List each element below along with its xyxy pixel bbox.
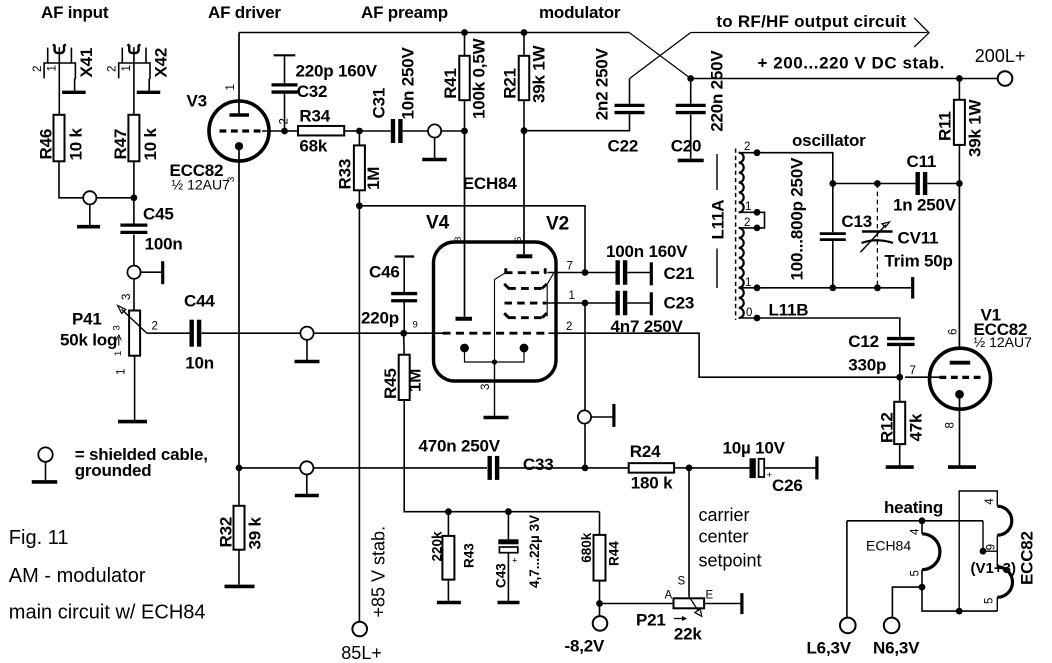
junction pin 9 node [400, 330, 407, 337]
svg-text:68k: 68k [299, 137, 328, 156]
svg-text:½ 12AU7: ½ 12AU7 [172, 177, 231, 193]
svg-text:100n: 100n [145, 235, 183, 254]
svg-text:9: 9 [413, 320, 418, 331]
wire C43 bottom [507, 553, 509, 601]
wire pin7 node to C21 [585, 272, 616, 274]
resistor R11 body [954, 100, 965, 145]
junction pin 1 node [582, 300, 589, 307]
trimmer CV11 top plate [862, 230, 893, 232]
wire C43 top [507, 512, 509, 540]
svg-text:C26: C26 [772, 476, 803, 495]
svg-text:2: 2 [32, 66, 44, 72]
wire L11B tap1 to ground [757, 287, 911, 289]
junction R11 bottom C11 [956, 180, 963, 187]
heating left drop to L terminal [846, 521, 848, 619]
svg-text:1: 1 [569, 290, 575, 302]
svg-text:100k 0,5W: 100k 0,5W [470, 37, 489, 119]
svg-text:10 k: 10 k [141, 127, 160, 160]
L11B tap 1 dot [754, 284, 761, 291]
inductor L11A winding [739, 153, 744, 213]
wire R44 node to P21 [600, 603, 674, 605]
connector X42 bracket [119, 63, 150, 91]
svg-text:4: 4 [984, 498, 996, 505]
junction C20 top [687, 75, 694, 82]
shielded-cable symbol at AF input [83, 191, 96, 204]
potentiometer P21 wiper [689, 597, 699, 612]
tube V3 envelope [209, 101, 269, 161]
wire heater loop top [959, 491, 997, 611]
wire P41 wiper to C44 [147, 332, 190, 334]
svg-text:R41: R41 [441, 68, 460, 99]
junction V1 grid R12 [896, 374, 903, 381]
svg-text:1: 1 [121, 65, 133, 71]
terminal L6,3V [840, 618, 856, 634]
wire +85V feed down to 85L+ terminal [358, 206, 360, 622]
junction C33 node [582, 465, 589, 472]
svg-text:AM - modulator: AM - modulator [9, 565, 146, 587]
potentiometer P21 body [674, 598, 705, 608]
tube V2 cathode [520, 344, 529, 353]
svg-text:½ 12AU7: ½ 12AU7 [974, 334, 1033, 350]
legend ground bar [32, 480, 58, 484]
tube V2 grid g4 row [505, 302, 547, 305]
resistor R34 body [298, 126, 344, 136]
svg-text:CV11: CV11 [898, 229, 939, 248]
capacitor C11 [916, 172, 920, 195]
wire C20 top [690, 79, 692, 104]
capacitor C23 [616, 291, 620, 316]
junction carrier node [686, 465, 693, 472]
connector X42 shield lead [145, 48, 147, 63]
capacitor C43 polarized plate [498, 539, 518, 544]
svg-text:R34: R34 [299, 107, 330, 126]
tube V4 plate lead from R41 [464, 131, 466, 317]
svg-text:85L+: 85L+ [341, 643, 382, 663]
svg-text:R45: R45 [381, 368, 400, 399]
junction pin 7 node [582, 269, 589, 276]
inductor L11B lower winding [739, 288, 744, 318]
svg-text:1: 1 [225, 84, 237, 90]
svg-text:C44: C44 [184, 292, 215, 311]
svg-text:ECH84: ECH84 [463, 174, 518, 193]
svg-text:C43: C43 [494, 563, 509, 588]
svg-text:R21: R21 [501, 68, 520, 99]
wire L11B tap0 to C12 [757, 318, 900, 337]
svg-text:9: 9 [986, 544, 998, 550]
capacitor C22 [615, 104, 645, 107]
svg-text:3: 3 [480, 384, 492, 390]
junction bias rail C43 [505, 508, 512, 515]
capacitor C45 [120, 223, 147, 226]
shield stub right [141, 271, 162, 273]
junction bias rail R43 [445, 508, 452, 515]
svg-text:3: 3 [121, 294, 133, 300]
svg-text:4n7 250V: 4n7 250V [611, 317, 684, 336]
svg-text:100n 160V: 100n 160V [606, 242, 688, 261]
svg-text:to RF/HF output circuit: to RF/HF output circuit [716, 12, 906, 31]
capacitor C43 open plate [499, 547, 517, 553]
terminal 85L+ [352, 622, 367, 637]
terminal 200L+ [998, 71, 1013, 86]
svg-text:1: 1 [745, 201, 751, 213]
crossover diagonal C22 to RF output [630, 33, 691, 79]
junction R47 C45 [131, 194, 138, 201]
ground bar right of C26 [815, 456, 818, 479]
resistor R43 body [442, 536, 454, 580]
svg-text:4,7...22µ 3V: 4,7...22µ 3V [527, 515, 542, 588]
svg-text:100...800p 250V: 100...800p 250V [788, 157, 807, 281]
ground bar below R43 [437, 601, 461, 605]
svg-text:1M: 1M [364, 167, 383, 190]
svg-text:1M: 1M [406, 369, 425, 392]
resistor R32 body [234, 506, 245, 550]
svg-text:C20: C20 [671, 136, 702, 155]
wire ECH84 pin 7 [548, 272, 586, 274]
wire L11A top tap to C13 [757, 153, 833, 233]
shield stub down [306, 340, 308, 360]
svg-text:carrier: carrier [699, 505, 750, 525]
capacitor C12 [887, 337, 915, 340]
wire R21 top [523, 33, 525, 56]
wire junction to -8,2V terminal [599, 604, 601, 617]
trimmer CV11 dashed link [876, 184, 878, 288]
wire carrier node down to P21 wiper [688, 468, 690, 597]
wire R12 bottom [899, 444, 901, 465]
junction R34 R33 C31 [356, 128, 363, 135]
ECC82 heater winding upper [997, 506, 1012, 535]
wire R21 bottom [523, 100, 525, 131]
wire C20 to ground [690, 115, 692, 159]
tube V1 envelope [930, 348, 991, 409]
svg-text:10 k: 10 k [67, 127, 86, 160]
capacitor C13 plates [820, 232, 846, 235]
ground bar below grid-wire shield [295, 360, 320, 364]
ground bar below V1 cathode [948, 465, 976, 469]
ground bar below AF input shield [77, 225, 100, 229]
heater center tap from top wire [983, 521, 997, 551]
tube cathode junction [492, 359, 497, 364]
svg-text:22k: 22k [674, 625, 703, 644]
ECC82 heater winding lower [997, 567, 1012, 597]
svg-text:V3: V3 [187, 92, 207, 111]
svg-text:C13: C13 [841, 212, 872, 231]
svg-text:+ 200...220 V DC stab.: + 200...220 V DC stab. [758, 54, 945, 73]
L11B tap 0 dot [754, 315, 761, 322]
potentiometer P41 wiper arrow [122, 309, 147, 333]
svg-text:P21: P21 [636, 611, 666, 630]
ground bar below C31 shield [422, 158, 447, 162]
svg-text:200L+: 200L+ [975, 46, 1026, 66]
wire R44 bottom [599, 581, 601, 604]
svg-text:4: 4 [910, 528, 922, 535]
tube V1 cathode lead pin 8 [959, 398, 961, 465]
shield stub right at pin1 line [591, 416, 613, 418]
junction rail R41 [461, 29, 468, 36]
tube ECH84 envelope [434, 242, 557, 381]
svg-text:50k log: 50k log [60, 331, 117, 350]
L11A tap 2 stub [739, 152, 757, 154]
tube V1 grid [940, 376, 983, 379]
wire shield to P41 [133, 279, 135, 311]
resistor R45 body [399, 355, 410, 400]
wire pin9 to R45 [403, 333, 406, 355]
wire R46 bottom to junction [59, 161, 83, 198]
tube V2 grid g3 row [504, 268, 507, 273]
inductor L11 core dashed line [735, 149, 737, 321]
ground bar below R12 [886, 465, 914, 469]
wire C26 to ground bar [765, 467, 816, 469]
wire ECH84 heater to bottom rail [922, 587, 997, 611]
svg-text:C32: C32 [297, 82, 328, 101]
L11 jumper tap1 to tap2 [757, 212, 765, 228]
svg-text:2n2 250V: 2n2 250V [593, 47, 612, 120]
L11B tap 2 dot [754, 225, 761, 232]
svg-text:1: 1 [745, 277, 751, 289]
wire node to C31 [359, 130, 390, 132]
junction R41 bottom V4 plate [461, 128, 468, 135]
ground bar below R32 [225, 585, 255, 589]
wire pin1 node to C23 [585, 302, 616, 304]
tube V3 grid lead [262, 130, 285, 132]
svg-text:C22: C22 [608, 136, 639, 155]
svg-text:E: E [706, 590, 714, 602]
svg-text:R32: R32 [217, 517, 236, 548]
wire shield to C33 [313, 467, 487, 469]
ground bar below C43 [498, 601, 520, 605]
svg-text:L11A: L11A [709, 200, 728, 240]
tube common grid g1 row [443, 332, 549, 335]
svg-text:180 k: 180 k [631, 474, 673, 493]
junction C13 top node [829, 180, 836, 187]
capacitor C31 [391, 119, 395, 143]
svg-text:R12: R12 [878, 412, 897, 443]
svg-text:A: A [665, 590, 673, 602]
svg-text:P41: P41 [72, 310, 102, 329]
wire C12 bottom to V1 grid node [899, 346, 901, 377]
wire top rail [239, 32, 629, 34]
svg-text:grounded: grounded [75, 461, 152, 480]
tube V3 grid [220, 129, 263, 132]
ground bar right of pin1 shield [612, 404, 615, 427]
svg-text:10µ 10V: 10µ 10V [723, 438, 786, 457]
heating top wire [847, 520, 983, 522]
ground bar below ECH84 cathode [484, 416, 509, 420]
capacitor C20 [676, 104, 706, 107]
svg-text:ECH84: ECH84 [866, 537, 911, 553]
svg-text:R46: R46 [36, 129, 55, 160]
wire C33 to pin1-line node [499, 467, 585, 469]
svg-text:6: 6 [513, 237, 524, 242]
svg-text:10n: 10n [185, 354, 214, 373]
svg-text:220k: 220k [430, 531, 445, 562]
ECH84 heater top lead [921, 521, 923, 534]
wire R12 top [899, 377, 901, 402]
wire R41 top [464, 33, 466, 56]
tube V2 plate [517, 254, 533, 258]
wire C11 to R11 line [927, 183, 959, 185]
svg-text:Fig. 11: Fig. 11 [9, 527, 69, 549]
svg-text:220n 250V: 220n 250V [708, 50, 727, 132]
svg-text:-8,2V: -8,2V [565, 637, 605, 656]
resistor R33 body [354, 145, 365, 190]
svg-text:C45: C45 [143, 205, 174, 224]
wire R43 bottom [447, 580, 449, 601]
junction CV11 bottom [874, 284, 881, 291]
svg-text:5: 5 [910, 570, 922, 576]
tube internal grid link right [547, 273, 554, 317]
svg-text:7: 7 [910, 365, 916, 377]
svg-text:C23: C23 [664, 294, 695, 313]
tube V3 cathode lead pin 3 [238, 150, 240, 468]
svg-text:+85 V stab.: +85 V stab. [369, 526, 389, 618]
junction R11 top [956, 75, 963, 82]
wire C22 top [629, 79, 631, 104]
svg-text:1: 1 [116, 369, 128, 375]
ECC82 heater mid link [996, 535, 998, 567]
wire C31 to shield circle [403, 130, 428, 132]
shielded-cable symbol on C33 wire [300, 461, 313, 474]
capacitor C32 plates [272, 83, 298, 86]
junction V3 grid node [281, 128, 288, 135]
svg-text:setpoint: setpoint [699, 550, 762, 570]
capacitor C46 top stub [403, 257, 405, 292]
svg-text:R47: R47 [111, 129, 130, 160]
tube V1 cathode [955, 390, 964, 399]
shielded-cable symbol on grid wire [300, 327, 313, 340]
tube V4 plate [456, 317, 473, 321]
svg-text:2: 2 [566, 321, 572, 333]
legend shielded-cable circle [38, 447, 52, 461]
junction CV11 top node [874, 180, 881, 187]
tube V1 plate lead pin 6 [958, 184, 960, 360]
ground bar below P41 [118, 420, 147, 424]
svg-text:ECC82: ECC82 [1018, 531, 1037, 585]
wire C21 to ground bar [627, 272, 650, 274]
L11B tap 0 stub [739, 317, 757, 319]
svg-text:220p 160V: 220p 160V [296, 62, 378, 81]
wire R11 bottom to V1 plate [958, 145, 960, 184]
wire +200V DC rail [691, 78, 998, 80]
wire R33 top [358, 131, 360, 145]
wire osc node to C11 [833, 183, 916, 185]
svg-text:heating: heating [884, 498, 943, 517]
wire C32 to grid junction [284, 92, 286, 131]
svg-text:S: S [678, 576, 686, 588]
svg-text:C11: C11 [907, 152, 937, 171]
wire R32 bottom [238, 550, 240, 585]
svg-text:2: 2 [744, 217, 750, 229]
wire pin 9 into tube [404, 332, 443, 334]
svg-text:10n 250V: 10n 250V [399, 47, 418, 120]
ground bar below C33-wire shield [295, 494, 319, 498]
connector X42 pin 2 lead [121, 48, 123, 63]
wire R34 to node [344, 130, 359, 132]
shield stub down at C33 wire [306, 475, 308, 495]
resistor R12 body [894, 402, 905, 444]
svg-text:5: 5 [983, 598, 995, 604]
svg-text:C12: C12 [848, 332, 879, 351]
junction R44 P21 terminal [596, 600, 603, 607]
L11A tap 1 dot [754, 209, 761, 216]
svg-text:main circuit w/ ECH84: main circuit w/ ECH84 [9, 602, 206, 624]
ECH84 heater bottom lead [921, 570, 923, 587]
wire shield to R41 node [441, 130, 464, 132]
ground bar at oscillator [911, 277, 914, 299]
svg-text:V4: V4 [426, 213, 450, 234]
connector X41 chassis ground [62, 91, 86, 94]
tube V1 plate [950, 361, 971, 365]
ground bar right of P21 [740, 593, 743, 614]
svg-text:X42: X42 [152, 48, 171, 78]
capacitor C33 [488, 456, 492, 480]
svg-text:39 k: 39 k [246, 516, 265, 549]
potentiometer P41 body [129, 311, 140, 356]
wire R21 node to C22 [524, 114, 630, 131]
junction heater center tap [980, 548, 987, 555]
ground bar right of C21 [650, 262, 653, 285]
capacitor C26 open plate [759, 459, 765, 477]
ground bar below C20 [678, 159, 704, 163]
tube V3 cathode [235, 142, 243, 150]
svg-text:6: 6 [948, 329, 960, 335]
resistor R46 body [54, 115, 65, 162]
svg-text:330p: 330p [848, 356, 886, 375]
tube V2 plate lead from R21 [523, 131, 525, 255]
resistor R24 body [629, 463, 674, 473]
junction V3 cathode C33 [236, 465, 243, 472]
svg-text:2: 2 [152, 321, 158, 333]
svg-text:C31: C31 [370, 88, 389, 119]
wire node to C26 [689, 467, 750, 469]
svg-text:3: 3 [112, 325, 123, 330]
svg-text:C46: C46 [369, 263, 400, 282]
tube internal screen link [495, 273, 505, 362]
svg-text:1: 1 [47, 65, 59, 71]
tube V3 plate lead pin 1 [238, 33, 240, 114]
connector X42 center pin [133, 47, 135, 115]
svg-text:center: center [699, 527, 749, 547]
wire node to ECH84 pin 7 branch [359, 206, 585, 273]
svg-text:R11: R11 [936, 111, 955, 141]
connector X42 chassis ground [137, 91, 161, 94]
svg-text:2: 2 [744, 141, 750, 153]
wire P41 bottom to ground [134, 356, 136, 420]
wire to N terminal [892, 587, 922, 619]
connector X42 cup [127, 44, 140, 53]
ECH84 heater winding [922, 534, 940, 570]
L11B tap 2 stub [739, 227, 757, 229]
connector X41 bracket [44, 63, 75, 91]
svg-text:+: + [512, 556, 518, 567]
tube V4 cathode [460, 344, 469, 353]
connector X41 center pin [58, 47, 60, 115]
svg-text:220p: 220p [361, 309, 399, 328]
wire R41 bottom [464, 100, 466, 131]
shield stub to ground [89, 204, 91, 225]
ground bar right of C23 [650, 292, 653, 315]
shielded-cable symbol above P41 [127, 266, 140, 279]
svg-text:1: 1 [113, 351, 124, 356]
svg-text:oscillator: oscillator [792, 131, 866, 150]
wire node to R24 [585, 467, 629, 469]
wire R45 down to bias rail [404, 400, 599, 512]
svg-text:R43: R43 [462, 543, 477, 568]
tube V2 grid g5 row [504, 313, 509, 318]
capacitor C32 top stub [284, 55, 286, 83]
svg-text:AF input: AF input [41, 3, 109, 22]
junction rail R21 [521, 29, 528, 36]
wire pin1 node down to C33 node [584, 303, 586, 468]
